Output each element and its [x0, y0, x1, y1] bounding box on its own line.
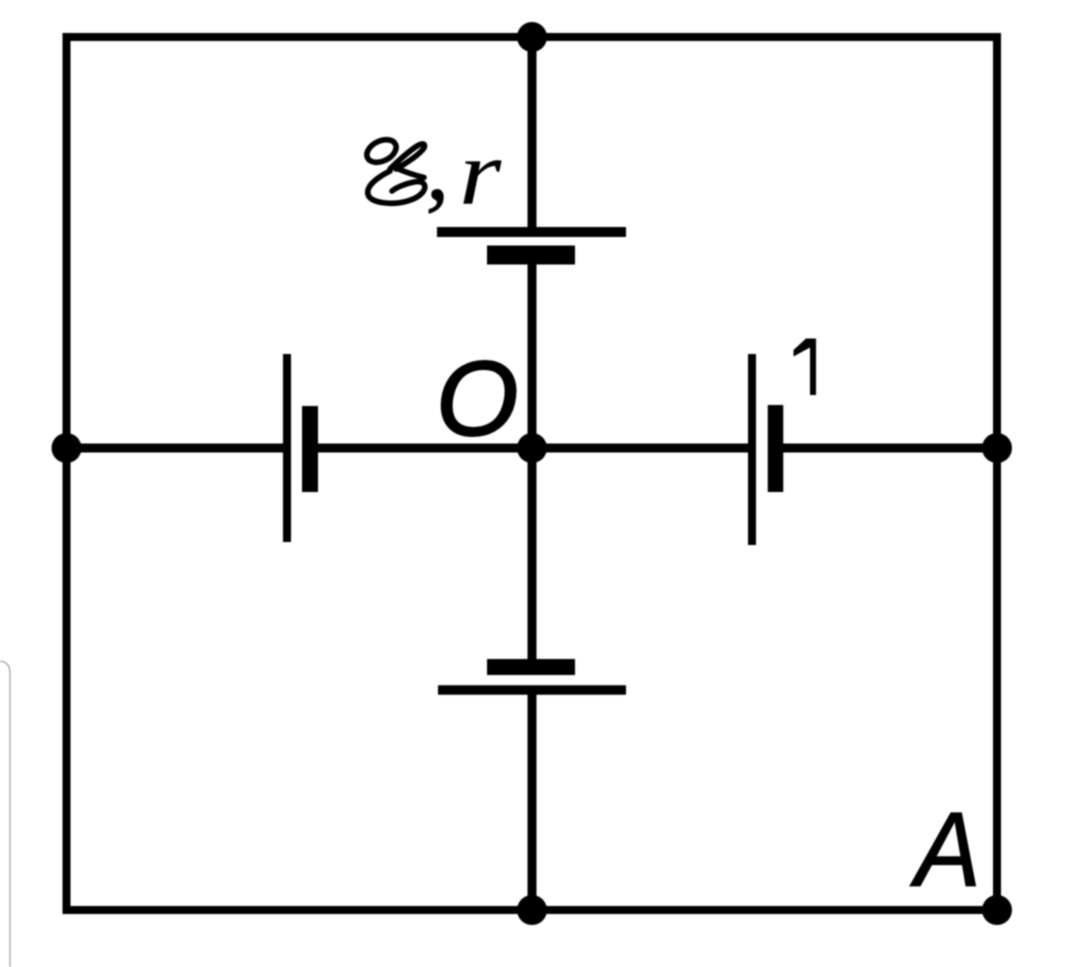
label script E (emf)	[363, 135, 425, 203]
battery bottom short thick plate	[487, 659, 575, 675]
node dot left	[52, 433, 82, 463]
node dot top	[517, 22, 547, 52]
wire top branch upper segment	[528, 37, 537, 233]
node O junction dot	[517, 433, 547, 463]
svg-text:A: A	[909, 790, 981, 909]
wire top branch lower segment	[528, 254, 537, 448]
decorative card edge bottom-left	[0, 661, 10, 967]
wire right branch outer segment	[776, 444, 998, 453]
node dot right	[982, 433, 1012, 463]
battery bottom long plate	[438, 685, 626, 695]
node A junction dot	[982, 895, 1012, 925]
battery left long plate	[283, 354, 291, 542]
wire outer square loop	[67, 37, 998, 910]
label 1 battery	[794, 339, 817, 396]
svg-text:,: ,	[426, 117, 449, 219]
wire right branch inner segment	[532, 444, 752, 453]
svg-text:O: O	[436, 340, 518, 458]
battery 1 short thick plate	[768, 405, 784, 492]
battery 1 long plate	[748, 354, 756, 545]
wire bottom branch upper segment	[528, 448, 537, 668]
wire bottom branch lower segment	[528, 689, 537, 910]
svg-text:r: r	[459, 122, 502, 224]
wire left branch inner segment	[310, 444, 532, 453]
battery E,r long plate	[437, 227, 626, 237]
node dot bottom	[517, 895, 547, 925]
battery left short thick plate	[302, 406, 318, 492]
wire left branch outer segment	[67, 444, 288, 453]
battery E,r short thick plate	[487, 246, 575, 265]
